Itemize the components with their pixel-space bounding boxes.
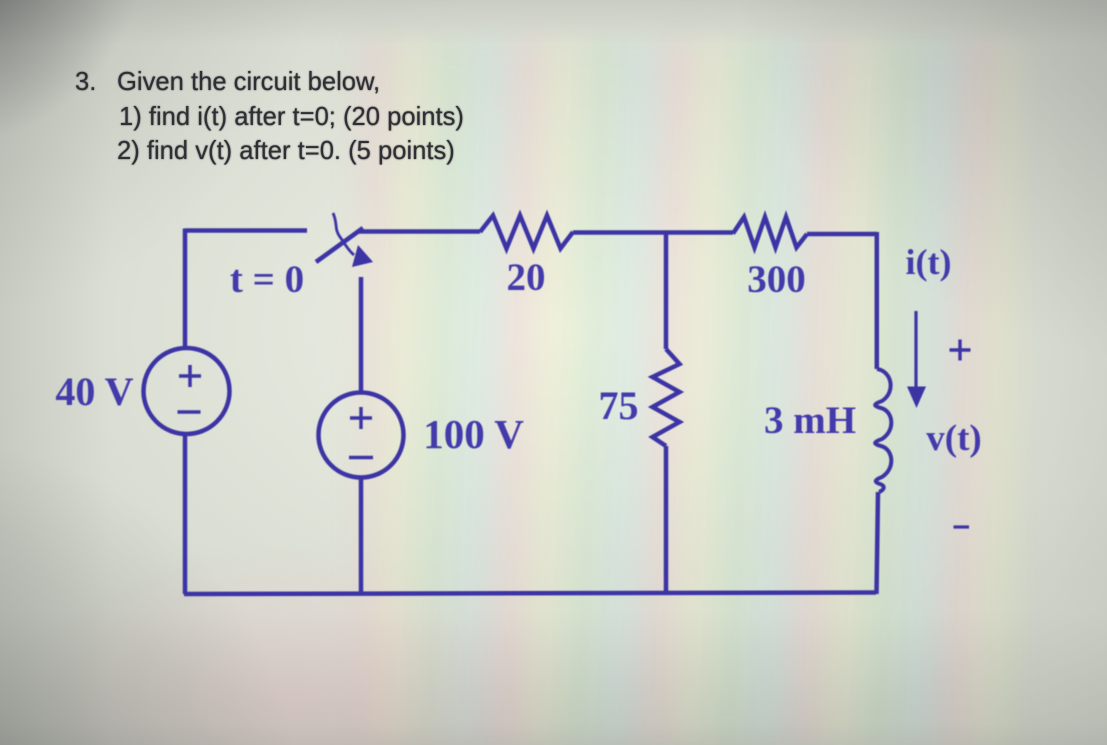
svg-text:40 V: 40 V [55,369,133,414]
svg-text:300: 300 [747,258,806,301]
svg-text:i(t): i(t) [906,242,952,282]
svg-text:75: 75 [599,383,639,428]
svg-text:20: 20 [507,256,546,299]
svg-text:3 mH: 3 mH [764,399,856,442]
svg-text:100 V: 100 V [423,411,524,457]
svg-text:v(t): v(t) [926,418,981,459]
svg-text:t = 0: t = 0 [230,258,304,301]
